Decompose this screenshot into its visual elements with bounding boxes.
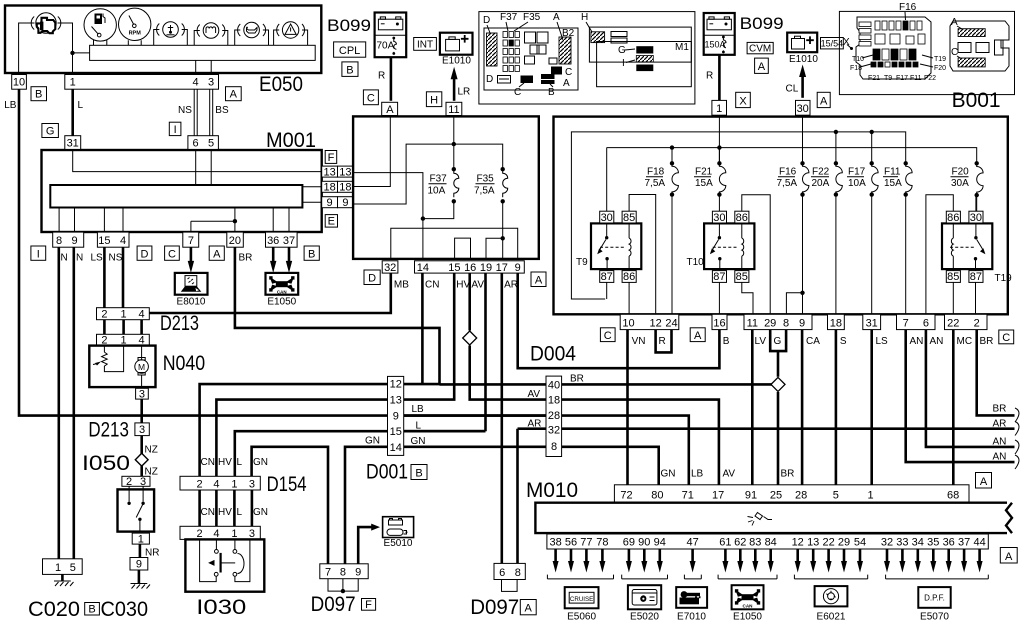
D213 lower row (N040 pins): [97, 334, 150, 345]
diagnostic plug icon inside M010: [748, 513, 773, 526]
svg-text:47: 47: [686, 537, 698, 549]
svg-text:BR: BR: [993, 404, 1007, 415]
svg-text:1: 1: [138, 533, 144, 545]
svg-text:A: A: [1005, 551, 1013, 563]
svg-text:B: B: [308, 248, 315, 260]
wire HV fusebox-15 to D001-13: [388, 273, 455, 400]
svg-text:F17: F17: [848, 167, 866, 178]
svg-text:30: 30: [601, 212, 613, 224]
svg-text:86: 86: [736, 212, 748, 224]
shielded wire BS: [210, 89, 213, 136]
svg-text:30A: 30A: [951, 178, 969, 189]
svg-text:28: 28: [795, 490, 807, 502]
wire N040-3 to D213-3: [140, 399, 143, 423]
svg-text:F: F: [328, 152, 335, 164]
svg-text:36: 36: [267, 235, 279, 247]
svg-text:A: A: [535, 275, 543, 287]
fuel gauge: [84, 9, 116, 41]
svg-text:BR: BR: [980, 336, 994, 347]
letter A: [690, 328, 705, 342]
pin A box top: [382, 102, 398, 115]
svg-text:85: 85: [947, 271, 959, 283]
D154 lower pin row 2 4 1 3: [180, 526, 260, 539]
I050 pin 1 box: [132, 533, 149, 544]
svg-text:LB: LB: [412, 404, 425, 415]
svg-text:84: 84: [765, 537, 777, 549]
ignition feed icon E1010: [787, 33, 818, 65]
rows through D001 strip: [388, 384, 547, 431]
svg-text:F37: F37: [500, 12, 518, 23]
svg-text:78: 78: [596, 537, 608, 549]
svg-text:D: D: [141, 248, 149, 260]
svg-text:BR: BR: [781, 469, 795, 480]
svg-text:32: 32: [384, 262, 396, 274]
location pictorial box (fusebox detail): [479, 12, 695, 104]
T19-85 to pin 22: [952, 282, 954, 314]
svg-text:GN: GN: [253, 507, 268, 518]
svg-text:24: 24: [665, 318, 677, 330]
hatched block B2: [559, 37, 571, 64]
I030 internals: [200, 539, 250, 581]
svg-text:BR: BR: [570, 374, 584, 385]
svg-text:I050: I050: [82, 452, 130, 475]
internal wire row13 to F37 out: [353, 173, 423, 219]
svg-text:F18: F18: [647, 167, 665, 178]
svg-text:1: 1: [70, 77, 76, 89]
arrow LR up to E1010: [453, 79, 456, 101]
svg-text:87: 87: [601, 271, 613, 283]
svg-text:B: B: [35, 89, 42, 101]
row 8 GN from D154-3 piece to M010-80: [388, 447, 659, 485]
svg-text:RPM: RPM: [129, 31, 142, 37]
row 18 AV already drawn ; row 28 LB continues right of D004 to M010-71: [546, 416, 689, 485]
svg-text:S: S: [840, 336, 847, 347]
svg-text:77: 77: [580, 537, 592, 549]
svg-text:2: 2: [974, 318, 980, 330]
notch pins 15 16: [455, 238, 471, 259]
svg-text:86: 86: [623, 271, 635, 283]
svg-text:5: 5: [70, 562, 76, 574]
row 40/BR from corner to splice: [440, 383, 773, 386]
svg-text:BR: BR: [239, 253, 253, 264]
svg-text:6: 6: [923, 318, 929, 330]
brake switch I050 box: [118, 489, 155, 531]
internal bottom rail pin32 to pin9: [391, 228, 518, 259]
svg-text:7,5A: 7,5A: [474, 186, 495, 197]
svg-text:VN: VN: [632, 336, 646, 347]
svg-text:CN: CN: [201, 507, 215, 518]
wire CN row and column to D154-2: [200, 384, 388, 476]
rail2 battery feed: [607, 148, 977, 164]
svg-text:35: 35: [927, 537, 939, 549]
svg-text:I: I: [37, 248, 40, 260]
svg-text:A: A: [694, 330, 702, 342]
svg-text:T10: T10: [687, 257, 705, 268]
svg-text:F22: F22: [924, 75, 936, 82]
hatched connector strip: [487, 33, 498, 66]
connector stubs: [104, 320, 141, 335]
notch pins 19 17: [486, 238, 503, 259]
svg-text:8: 8: [551, 441, 557, 453]
hatched block H: [591, 32, 605, 43]
svg-text:85: 85: [736, 271, 748, 283]
svg-text:80: 80: [651, 490, 663, 502]
letter B: [304, 246, 319, 260]
lower fuse row dark: [871, 49, 918, 67]
svg-text:D: D: [486, 74, 493, 85]
svg-text:CN: CN: [425, 280, 439, 291]
svg-text:LV: LV: [755, 336, 767, 347]
svg-text:2: 2: [126, 476, 132, 488]
pin 11 box top: [446, 102, 462, 115]
particulate filter icon E5070: [918, 587, 950, 622]
svg-text:H: H: [581, 12, 588, 23]
bar to pins 4 3: [196, 60, 212, 74]
glow plugs icon E6021: [815, 586, 848, 622]
svg-text:HV: HV: [218, 457, 232, 468]
rows 18 9 to right pins: [302, 187, 321, 202]
svg-text:CA: CA: [806, 336, 820, 347]
svg-text:87: 87: [713, 271, 725, 283]
coolant temperature icon: [157, 22, 185, 38]
warning triangle icon: [277, 22, 305, 38]
internal wire pin11 down: [453, 116, 455, 169]
gauge legs: [94, 40, 142, 45]
svg-text:F17: F17: [896, 75, 908, 82]
svg-text:AN: AN: [993, 437, 1007, 448]
small blocks row: [549, 58, 557, 64]
wire LB E050-10 down and right to D001-9 (bus row): [19, 89, 546, 415]
body computer M001 box: [42, 150, 322, 232]
pin 31 box: [65, 136, 81, 150]
svg-text:18: 18: [830, 318, 842, 330]
svg-text:83: 83: [749, 537, 761, 549]
svg-text:NS: NS: [109, 253, 123, 264]
svg-text:69: 69: [623, 537, 635, 549]
svg-text:8: 8: [783, 318, 789, 330]
svg-text:32: 32: [548, 425, 560, 437]
svg-text:N: N: [76, 253, 83, 264]
pin 16 box: [712, 314, 727, 329]
D154 upper pin row 2 4 1 3: [180, 476, 260, 490]
svg-text:D: D: [483, 15, 490, 26]
svg-text:A: A: [230, 89, 238, 101]
svg-text:C030: C030: [101, 598, 149, 621]
svg-text:94: 94: [654, 537, 666, 549]
brake pedal switch I030 box: [185, 539, 264, 591]
engine warning lamp icon: [31, 13, 61, 33]
battery symbol: [378, 17, 402, 30]
svg-text:32: 32: [881, 537, 893, 549]
svg-text:4: 4: [213, 528, 219, 540]
continuation squiggle AN: [1015, 455, 1019, 469]
svg-text:NZ: NZ: [145, 445, 158, 456]
svg-text:A: A: [758, 61, 766, 73]
fuse F20: [951, 161, 984, 211]
wire N M001-8 to C020-1: [57, 247, 60, 559]
svg-text:15: 15: [98, 235, 110, 247]
svg-text:6: 6: [192, 138, 198, 150]
wire CN fusebox-14 to D001-12: [421, 273, 424, 384]
twin blocks: [611, 32, 627, 37]
svg-text:AV: AV: [528, 389, 541, 400]
svg-text:9: 9: [327, 197, 333, 209]
svg-text:3: 3: [140, 476, 146, 488]
letter A: [817, 92, 830, 107]
F37 out to pin 14: [423, 201, 454, 218]
svg-text:MB: MB: [394, 280, 409, 291]
svg-text:15: 15: [448, 262, 460, 274]
svg-text:CAN: CAN: [743, 604, 754, 609]
svg-text:GN: GN: [411, 436, 426, 447]
wire BR loop to splice to M010-25: [777, 351, 780, 485]
letter C: [165, 246, 180, 260]
svg-text:T9: T9: [576, 257, 588, 268]
CAN network icon E1050: [266, 273, 299, 308]
svg-text:3: 3: [139, 424, 145, 436]
fuse F18: [645, 145, 679, 314]
jumper G relay 29-8: [770, 330, 786, 352]
wire AV fusebox-16 via splice to D004-18: [470, 273, 546, 400]
wire GN row left piece to D097-7: [252, 447, 328, 564]
diagnosis tester icon E8010: [175, 273, 208, 308]
fuse F11: [883, 161, 912, 314]
svg-text:17: 17: [712, 490, 724, 502]
arrow M001-7 to E8010: [190, 247, 193, 265]
svg-text:D: D: [368, 273, 376, 285]
svg-text:30: 30: [970, 212, 982, 224]
svg-text:E5060: E5060: [567, 612, 596, 623]
engine control unit M010 box: [535, 503, 1012, 533]
pin1 wire into rail2: [718, 117, 720, 164]
svg-text:E050: E050: [259, 73, 303, 96]
svg-text:C020: C020: [28, 598, 80, 621]
instrument cluster E050 box: [5, 6, 321, 74]
pin 32 box: [382, 261, 398, 273]
svg-text:GN: GN: [253, 457, 268, 468]
svg-text:86: 86: [947, 212, 959, 224]
svg-text:F35: F35: [523, 12, 541, 23]
svg-text:1: 1: [231, 478, 237, 490]
wire LS M001-15 to D213-2: [103, 247, 106, 308]
wire engine lamp to pin 1 with node: [58, 23, 73, 75]
svg-text:AV: AV: [471, 280, 484, 291]
letter E: [325, 215, 337, 228]
fuse F17: [847, 130, 878, 315]
svg-text:L: L: [78, 100, 84, 111]
svg-text:AR: AR: [504, 280, 518, 291]
T10-86 bridge to pin 29: [742, 195, 770, 314]
svg-text:M1: M1: [675, 42, 689, 53]
svg-text:C: C: [168, 248, 176, 260]
svg-text:AR: AR: [528, 419, 542, 430]
wire S relay-18 to M010-5: [835, 330, 838, 485]
svg-text:14: 14: [417, 262, 429, 274]
svg-text:E1050: E1050: [733, 612, 762, 623]
svg-text:29: 29: [764, 318, 776, 330]
letter A: [209, 246, 224, 260]
svg-text:20: 20: [229, 235, 241, 247]
svg-text:INT: INT: [417, 40, 433, 51]
pins 36 37 box: [266, 232, 298, 247]
svg-text:BS: BS: [215, 105, 229, 116]
rail1 from T9-87: [571, 132, 905, 299]
letter D: [364, 270, 380, 285]
wire NZ upper: [140, 436, 143, 454]
svg-text:40: 40: [548, 379, 560, 391]
bracket under D097 F: [328, 579, 358, 591]
pin 7 box: [183, 232, 199, 247]
carrier fuse slots left column: [859, 22, 871, 46]
svg-text:A: A: [980, 476, 988, 488]
wire MB D213-4 to fusebox-32: [149, 273, 390, 313]
middle relay squares: [875, 34, 925, 44]
T9-30 to rail2: [606, 148, 608, 212]
svg-text:16: 16: [713, 318, 725, 330]
wire 31 to row 13: [73, 149, 322, 171]
svg-text:T19: T19: [995, 273, 1013, 284]
letter A: [531, 272, 546, 287]
svg-text:F20: F20: [934, 65, 946, 72]
internal wire pinA to row18: [353, 116, 390, 186]
hatched blocks G I: [636, 46, 653, 53]
inner panel left: [484, 28, 578, 90]
svg-text:L: L: [416, 421, 422, 432]
cluster internal bus bar: [90, 45, 316, 60]
D097 A pins 6 8 box: [494, 563, 525, 579]
svg-text:13: 13: [339, 166, 351, 178]
module to bottom pins wires: [59, 208, 289, 233]
junction unit box (F37/F35): [353, 116, 539, 259]
svg-text:31: 31: [67, 138, 79, 150]
fuse F22: [811, 130, 842, 315]
svg-text:37: 37: [283, 235, 295, 247]
svg-text:C: C: [565, 67, 572, 78]
svg-text:AN: AN: [910, 336, 924, 347]
svg-text:2: 2: [197, 528, 203, 540]
pin 30 box top: [796, 100, 811, 115]
svg-text:7,5A: 7,5A: [645, 178, 666, 189]
svg-text:T9: T9: [884, 75, 892, 82]
fuse array grid: [503, 32, 519, 72]
wire N M001-9 to C020-5: [73, 247, 76, 559]
svg-text:3: 3: [139, 388, 145, 400]
svg-text:M001: M001: [266, 129, 316, 152]
motor M inside N040: [135, 346, 149, 389]
middle white connectors: [958, 43, 971, 53]
D097 F pins 7 8 9 box: [320, 564, 368, 579]
I050 pins 2 3 box: [122, 476, 150, 486]
svg-text:B099: B099: [740, 14, 784, 33]
svg-text:D004: D004: [530, 343, 576, 366]
ground symbol C020: [54, 574, 74, 586]
pin group brackets: [547, 575, 613, 579]
svg-text:CRUISE: CRUISE: [570, 596, 593, 603]
T9-87 to rail1: [606, 282, 608, 299]
svg-text:12: 12: [649, 318, 661, 330]
letter X: [736, 92, 751, 107]
CPL box: [334, 42, 366, 57]
row 18 AV right of D004 to M010-17: [562, 400, 719, 485]
starter signal icon E5010: [383, 517, 414, 549]
svg-text:D213: D213: [160, 312, 199, 335]
arrows M001-36 37 to E1050: [272, 247, 275, 265]
svg-text:9: 9: [136, 559, 142, 571]
M001 inner module rect: [50, 185, 302, 208]
svg-text:8: 8: [56, 235, 62, 247]
svg-text:AN: AN: [930, 336, 944, 347]
svg-text:CPL: CPL: [339, 45, 360, 57]
svg-text:B001: B001: [952, 89, 1001, 112]
wire AR fusebox-17 to D097-6: [500, 273, 503, 563]
svg-text:56: 56: [565, 537, 577, 549]
icon drop wires: [154, 30, 188, 46]
svg-text:E8010: E8010: [177, 297, 206, 308]
svg-text:LS: LS: [91, 253, 104, 264]
svg-text:68: 68: [947, 490, 959, 502]
svg-text:8: 8: [340, 567, 346, 579]
svg-text:A: A: [525, 603, 533, 615]
wire CA relay-9 to M010-28: [801, 330, 804, 485]
svg-text:A: A: [213, 248, 221, 260]
resistor with arrow inside N040: [93, 346, 124, 372]
ground symbol C030: [131, 570, 151, 589]
letter B: [342, 62, 358, 77]
svg-text:G: G: [774, 336, 782, 347]
svg-text:9: 9: [342, 197, 348, 209]
wire B fusebox-9 to relay-16: [518, 273, 720, 368]
wire engine lamp to pin 10: [19, 23, 35, 75]
splice diamond AV: [463, 331, 477, 345]
svg-text:150A: 150A: [705, 40, 726, 50]
svg-text:3: 3: [249, 478, 255, 490]
svg-text:15A: 15A: [884, 178, 902, 189]
pin strip 14 15 16 19 17 9: [415, 261, 525, 273]
continuation squiggle AR: [1015, 422, 1019, 436]
svg-text:R: R: [659, 336, 666, 347]
svg-text:61: 61: [719, 537, 731, 549]
T10-85 to pin 11: [742, 282, 753, 314]
svg-text:R: R: [378, 71, 385, 82]
letter C: [600, 328, 615, 342]
continuation squiggle AN: [1015, 440, 1019, 454]
CAN network icon E1050: [732, 585, 764, 622]
svg-text:A: A: [563, 78, 570, 89]
svg-text:87: 87: [970, 271, 982, 283]
glow plug icon: [197, 23, 225, 39]
svg-text:F16: F16: [899, 2, 917, 13]
svg-text:X: X: [739, 95, 747, 107]
M010 output arrows: [553, 549, 559, 573]
svg-text:38: 38: [549, 537, 561, 549]
svg-text:22: 22: [947, 318, 959, 330]
svg-text:62: 62: [734, 537, 746, 549]
fuse F16: [777, 161, 809, 314]
T19-86 bridge to pin 6: [926, 195, 953, 314]
arrow CL up to E1010: [801, 77, 804, 98]
svg-text:E: E: [328, 216, 335, 228]
svg-text:22: 22: [822, 537, 834, 549]
svg-text:I: I: [174, 124, 177, 136]
svg-text:B: B: [415, 468, 422, 480]
svg-text:18: 18: [339, 182, 351, 194]
svg-text:28: 28: [548, 410, 560, 422]
right pin boxes 13 13: [322, 166, 338, 177]
wire R battery to fusebox pin A: [390, 57, 393, 101]
wire to E5010 with arrow: [358, 527, 372, 564]
fuse carrier outline: [856, 17, 931, 79]
pins 6 5 box: [188, 136, 219, 150]
